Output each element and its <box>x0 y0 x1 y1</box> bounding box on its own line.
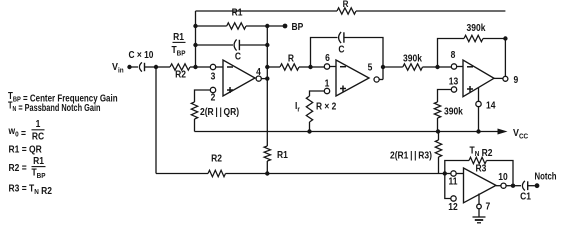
wire pin 4 to bus <box>261 78 267 80</box>
svg-text:R3 = TN R2: R3 = TN R2 <box>9 183 53 196</box>
wire 390k pin13 to rail <box>437 118 439 132</box>
svg-text:R2: R2 <box>175 69 186 80</box>
node A <box>154 65 158 69</box>
capacitor C (A1 feedback) <box>234 39 237 50</box>
svg-text:C × 10: C × 10 <box>129 49 154 60</box>
resistor R1 (to bottom row) <box>264 146 270 161</box>
wire bottom row mid <box>226 173 445 175</box>
wire bottom row left <box>156 173 208 175</box>
svg-text:Notch: Notch <box>535 171 557 182</box>
capacitor C x 10 <box>139 62 142 71</box>
wire C1 to Notch <box>528 185 535 187</box>
svg-text:1: 1 <box>36 118 41 129</box>
svg-text:R × 2: R × 2 <box>316 101 336 112</box>
wire 390k fb right <box>483 38 505 40</box>
svg-text:10: 10 <box>498 171 507 182</box>
wire C2 loop right <box>344 38 383 80</box>
wire pin 1 left <box>310 91 325 96</box>
svg-text:C: C <box>235 51 241 62</box>
svg-text:390k: 390k <box>444 106 464 117</box>
svg-text:2: 2 <box>211 92 216 103</box>
pin 2 <box>210 87 215 92</box>
svg-text:5: 5 <box>368 62 373 73</box>
svg-text:11: 11 <box>449 176 458 187</box>
wire R2 to node B <box>190 66 196 68</box>
node C row <box>265 43 269 47</box>
wire node C to pin 6 <box>311 66 325 68</box>
svg-text:390k: 390k <box>403 53 423 64</box>
svg-text:R1: R1 <box>277 149 288 160</box>
wire C2 loop up <box>311 38 338 68</box>
resistor R1 (feedback) <box>227 23 246 29</box>
wire bus V4 upper <box>266 26 268 146</box>
svg-text:9: 9 <box>514 74 519 85</box>
svg-text:2(R1 | | R3): 2(R1 | | R3) <box>390 150 432 161</box>
svg-text:6: 6 <box>325 52 330 63</box>
svg-text:14: 14 <box>486 100 496 111</box>
wire pin 12 left <box>445 174 451 199</box>
pin 11 <box>451 171 456 176</box>
wire pin 13 left <box>438 90 452 103</box>
node BP <box>283 24 288 29</box>
wire top line left <box>196 10 338 12</box>
svg-text:RC: RC <box>32 131 45 142</box>
pin 14 <box>478 88 480 102</box>
wire node B to pin 3 <box>196 66 211 68</box>
wire pin 5 to vertical <box>379 79 383 81</box>
svg-text:2(R | | QR): 2(R | | QR) <box>200 106 239 117</box>
node rail pin14 <box>476 129 480 133</box>
resistor 390k (pin 13) <box>434 102 440 118</box>
wire pin 8 to A3 <box>457 66 463 68</box>
node C <box>308 65 312 69</box>
op-amp A2 <box>336 60 369 96</box>
node B top <box>193 24 197 28</box>
wire VCC rail <box>195 131 499 133</box>
wire fb arm up <box>445 161 469 174</box>
ground <box>478 209 480 217</box>
wire A2 out to 390k <box>383 66 403 68</box>
node Notch <box>535 183 540 188</box>
wire top line right <box>356 10 505 12</box>
svg-text:VCC: VCC <box>513 127 528 140</box>
wire top line down to pin 9 <box>504 39 506 77</box>
output bubble pin 5 <box>374 77 379 82</box>
wire 2(R||QR) to rail <box>194 119 196 132</box>
wire node D to pin 8 <box>438 66 452 68</box>
svg-text:R1: R1 <box>232 7 243 18</box>
pin 8 <box>451 64 456 69</box>
wire pin 6 to A2 <box>330 66 336 68</box>
svg-text:12: 12 <box>448 201 457 212</box>
wire pin 11 to A4 <box>456 173 463 175</box>
resistor 2(R||QR) <box>191 102 197 119</box>
svg-text:1: 1 <box>325 78 330 89</box>
wire 390k to node D <box>423 66 438 68</box>
op-amp A3 <box>463 60 494 97</box>
svg-text:4: 4 <box>256 66 261 77</box>
pin 12 <box>451 196 456 201</box>
output bubble pin 10 <box>496 185 501 187</box>
wire C row right <box>239 44 267 46</box>
pin 6 <box>324 64 329 69</box>
svg-text:R1: R1 <box>33 155 44 166</box>
pin 1 <box>324 88 329 93</box>
wire C row left <box>196 44 234 46</box>
svg-text:Ir: Ir <box>295 100 300 113</box>
resistor R3 / TN R2 <box>469 157 487 163</box>
svg-text:R2: R2 <box>211 153 222 164</box>
svg-text:13: 13 <box>449 76 458 87</box>
output bubble pin 9 <box>494 77 503 79</box>
svg-text:3: 3 <box>211 71 216 82</box>
svg-text:R: R <box>343 0 349 9</box>
capacitor C (A2 feedback) <box>339 32 342 43</box>
resistor R (series) <box>267 66 280 68</box>
svg-text:w0 =: w0 = <box>8 125 27 138</box>
node A2 out top <box>381 65 385 69</box>
output bubble pin 4 <box>256 76 261 81</box>
svg-text:TN R2: TN R2 <box>470 145 493 158</box>
svg-text:R1: R1 <box>173 31 184 42</box>
node bottom R1 <box>265 171 269 175</box>
svg-text:C: C <box>338 44 344 55</box>
node D <box>435 65 439 69</box>
wire pin 2 left <box>195 90 211 102</box>
wire R1 row right <box>246 25 285 27</box>
node rail 390k <box>436 129 440 133</box>
svg-text:C1: C1 <box>520 191 531 202</box>
resistor 390k (A3 feedback) <box>464 35 483 41</box>
resistor R (top) <box>337 8 356 14</box>
svg-text:TN = Passband Notch Gain: TN = Passband Notch Gain <box>8 99 100 113</box>
wire R1 row left <box>196 25 227 27</box>
svg-text:R2 =: R2 = <box>9 162 28 173</box>
wire Vin to C*10 <box>130 66 139 68</box>
pin 3 <box>210 64 215 69</box>
wire Rx2 to rail <box>309 122 311 132</box>
wire node A down-left vertical <box>155 67 157 174</box>
resistor R x 2 <box>306 96 312 122</box>
node B mid <box>193 43 197 47</box>
svg-text:R1 = QR: R1 = QR <box>9 144 43 155</box>
svg-text:TBP: TBP <box>31 167 45 180</box>
op-amp A1 <box>223 60 255 96</box>
node rail Rx2 <box>307 129 311 133</box>
svg-text:BP: BP <box>292 21 304 32</box>
op-amp A4 <box>464 168 497 203</box>
arrow VCC <box>498 129 508 135</box>
wire R1 to bottom row <box>266 161 268 174</box>
capacitor C1 <box>522 181 525 191</box>
wire 390k fb loop <box>438 39 465 68</box>
pin 7 <box>478 194 480 205</box>
resistor R2 (input) <box>170 64 190 70</box>
node A1 out <box>265 76 269 80</box>
wire C*10 to node <box>145 66 157 68</box>
wire node to pin 11 <box>445 173 451 175</box>
wire vertical bus left <box>195 11 197 67</box>
resistor 2(R1||R3) <box>435 140 441 157</box>
wire pin 3 to A1 <box>216 66 223 68</box>
node R row left <box>265 65 269 69</box>
pin 13 <box>451 87 456 92</box>
node A3 fb <box>503 36 507 40</box>
wire pin 14 to rail <box>478 107 480 132</box>
node R1 row <box>265 24 269 28</box>
node Vin <box>127 65 131 69</box>
node output <box>511 184 515 188</box>
svg-text:R3: R3 <box>476 163 487 174</box>
wire fb to output <box>487 161 514 184</box>
wire node A to R2 <box>156 66 170 68</box>
wire 2(R1||R3) to bottom row <box>438 132 440 174</box>
node B main <box>193 65 197 69</box>
svg-text:R: R <box>288 53 294 64</box>
resistor R2 (bottom) <box>208 170 226 176</box>
svg-text:7: 7 <box>486 201 491 212</box>
wire pin 10 to C1 <box>506 185 521 187</box>
wire R to node C <box>299 66 311 68</box>
svg-text:TBP: TBP <box>171 44 185 57</box>
svg-text:8: 8 <box>451 49 456 60</box>
svg-text:390k: 390k <box>467 22 487 33</box>
svg-text:Vin: Vin <box>112 61 124 74</box>
resistor 390k (series) <box>403 64 423 70</box>
node bottom A4 in <box>443 171 447 175</box>
